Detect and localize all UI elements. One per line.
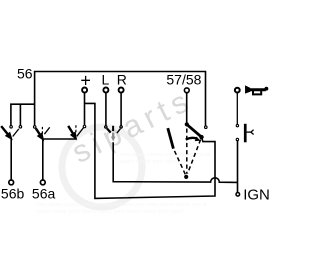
svg-text:IGN: IGN (243, 186, 270, 203)
svg-text:56a: 56a (32, 186, 56, 202)
svg-text:57/58: 57/58 (166, 72, 201, 88)
svg-text:+: + (80, 70, 91, 90)
svg-text:56b: 56b (1, 186, 25, 202)
svg-text:siparts classic parts siparts: siparts classic parts siparts classic pa… (36, 209, 184, 215)
svg-text:L: L (102, 71, 110, 87)
svg-text:siparts classic parts siparts: siparts classic parts siparts class (120, 159, 193, 165)
svg-text:R: R (117, 71, 127, 87)
svg-text:www.siparts-classic.com www.si: www.siparts-classic.com www.siparts-clas… (36, 202, 207, 208)
svg-text:56: 56 (17, 66, 33, 82)
svg-text:www.siparts-classic.com www.si: www.siparts-classic.com www.siparts-cla (120, 152, 211, 158)
